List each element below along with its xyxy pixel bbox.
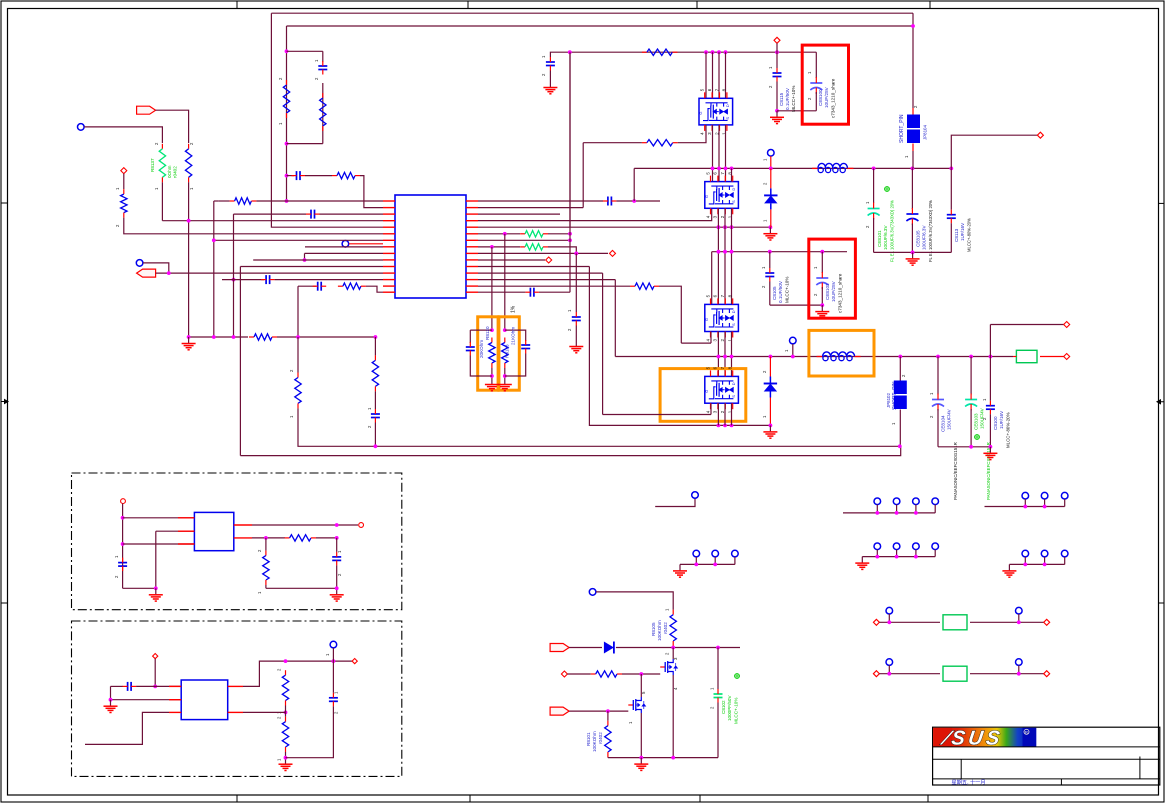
testpoint row1 mid junction 2 (895, 511, 899, 515)
wire cap to gnd top (549, 71, 551, 82)
wire JP8104 pin1 to SW1 (912, 151, 914, 168)
pin1 label RC cap (314, 59, 319, 62)
IC U8100 right pins (466, 201, 478, 292)
label C8113 (954, 228, 959, 242)
svg-text:G: G (704, 195, 709, 198)
resistor on rail52 (642, 49, 678, 55)
svg-text:MLCC+-10%: MLCC+-10% (734, 698, 739, 724)
wire box1 fb down (265, 538, 267, 551)
pin1 box1 res (257, 591, 262, 594)
power diamond row260 (546, 257, 552, 263)
junction row253 x576 (574, 252, 578, 256)
wire row R266 (478, 266, 589, 268)
testpoint row1 mid circle 1 (874, 498, 881, 505)
fuse row B stub left (888, 665, 890, 673)
label CE8105 value (922, 225, 927, 250)
wire D2 top (769, 357, 771, 377)
pin2 D2 (762, 370, 767, 373)
junction SW2 JP8102 (898, 355, 902, 359)
pin5 Q2 (641, 691, 646, 694)
junction rail227 bus3 (717, 225, 721, 229)
wire bus line1 top (705, 52, 707, 98)
svg-text:r0402: r0402 (598, 732, 603, 744)
junction rail227 bus2 (723, 225, 727, 229)
capacitor CE8100 10UF/25V (810, 77, 822, 94)
wire row201 cap to end (616, 200, 660, 202)
wire caps bottom rail (874, 251, 952, 253)
ground box2 bottom (279, 758, 293, 771)
wire vertical x286 left (286, 26, 288, 201)
power diamond C8115 (774, 37, 780, 43)
svg-text:D: D (731, 382, 736, 385)
highlight box orange around Q8104 (660, 369, 746, 422)
pin1 C8115 (768, 66, 773, 69)
junction bm row2 (639, 672, 643, 676)
resistor bm row2 (591, 671, 622, 677)
capacitor C8115 0.1UF/50V (773, 68, 782, 82)
wire D1 top (770, 168, 772, 188)
wire IC row L253 (305, 252, 384, 254)
ASUS logo (933, 728, 1036, 750)
power diamond box2 out (352, 659, 357, 664)
wire R8137 down (161, 182, 163, 220)
wire CE8105 bottom (911, 224, 913, 253)
fuse row A circle left (886, 607, 893, 614)
label CE8103 value (980, 407, 985, 429)
svg-text:0Ohm: 0Ohm (167, 165, 172, 178)
testpoint row2 mid stub 3 (915, 550, 917, 557)
wire v213 from row201 (214, 200, 219, 202)
capacitor on row175 (292, 171, 306, 180)
junction box1 out top (335, 523, 339, 527)
pin1 res188 (189, 187, 194, 190)
label 1 percent (511, 305, 517, 313)
junction rail425 bus4 (723, 424, 727, 428)
svg-text:R8133: R8133 (505, 344, 510, 358)
label 0.1UF/50V (785, 87, 790, 110)
wire bus line4 mid1 (725, 125, 727, 182)
testpoint row2 left stub 1 (695, 557, 697, 565)
fuse row B diamond left (873, 671, 879, 677)
wire v240 down long (239, 267, 241, 456)
pin2 cap rail (541, 73, 546, 76)
svg-text:S: S (725, 117, 730, 120)
wire row R201 to cap (478, 200, 603, 202)
junction R8120 bottom (490, 374, 494, 378)
wire JP8102 pin2 (899, 357, 901, 381)
label C8102 (721, 700, 726, 714)
testpoint row2 mid circle4 (932, 543, 939, 550)
capacitor v375 (371, 409, 380, 423)
fuse row B circle left (886, 659, 893, 666)
capacitor left of R8120 (466, 342, 475, 356)
resistor on row175 (332, 172, 360, 178)
resistor on branch x322 (320, 93, 326, 131)
label FL EL (890, 200, 895, 262)
wire R8105 to row (672, 646, 674, 648)
pin2 res v298 (289, 369, 294, 372)
wire box1 res to cap (316, 537, 337, 539)
fuse row A wire left (879, 621, 940, 623)
testpoint row2 left ground (673, 564, 687, 577)
junction row247 x491 (490, 245, 494, 249)
wire RC branch top (287, 50, 323, 52)
fuse row A diamond left (873, 619, 879, 625)
capacitor right of R8133 (521, 340, 530, 354)
svg-text:1000PF/50V: 1000PF/50V (727, 695, 732, 721)
fuse row A junction right (1017, 620, 1021, 624)
ground box1 left (149, 588, 163, 601)
testpoint row2 left junction 1 (694, 563, 698, 567)
wire C8105 top (769, 252, 771, 268)
svg-text:D: D (731, 310, 736, 313)
fuse row A diamond right (1044, 619, 1050, 625)
ground C8115 (770, 111, 784, 124)
junction box2 bottom (284, 756, 288, 760)
junction SW2 CE8103 (969, 355, 973, 359)
pin4 Q1 (673, 687, 678, 690)
testpoint row2 left stub3 (734, 557, 736, 565)
testpoint row2 right ground (1002, 564, 1016, 577)
wire net VIN top A (271, 12, 913, 14)
testpoint row2 right circle 1 (1022, 550, 1029, 557)
junction gate row x286 (285, 174, 289, 178)
power diamond VOUT1 (1037, 132, 1043, 138)
label CE8101 (877, 230, 882, 247)
junction R8133 bottom (503, 374, 507, 378)
wire bus line2 rail2 corner (711, 252, 713, 305)
pin1 CE8100 (807, 71, 812, 74)
junction row240 x570 (568, 238, 572, 242)
label c7343 1210 share (831, 78, 836, 118)
pin1 box2 circle (325, 653, 330, 656)
wire row R292 to cap (478, 291, 525, 293)
zone ticks left with arrow (1, 202, 8, 204)
pin1 label res x286 (278, 122, 283, 125)
pin1 box2 resL (277, 758, 282, 761)
ground box2 left (104, 700, 118, 713)
resistor vertical x123 (121, 189, 127, 218)
wire row R227 rail to D1 (478, 226, 770, 228)
junction SW1 bus x719 (717, 167, 721, 171)
svg-text:SHORT_PIN: SHORT_PIN (899, 114, 905, 143)
svg-text:1UF/16V: 1UF/16V (999, 410, 1004, 429)
junction rail251 bus1 (730, 250, 734, 254)
junction SW1 x951 (949, 167, 953, 171)
wire v576 from row253 (575, 253, 577, 312)
svg-text:JP8102: JP8102 (886, 393, 891, 408)
ground D2 (763, 425, 777, 438)
zone ticks top (236, 1, 238, 9)
wire bm row2 right (622, 673, 660, 675)
capacitor top left of rail (546, 57, 555, 71)
wire IC row L214 left (234, 213, 307, 215)
fuse row A junction left (887, 620, 891, 624)
pin1 CE8104 (929, 392, 934, 395)
wire row247 to corner576 (548, 247, 576, 254)
inductor L SW2 (817, 352, 861, 361)
junction row233 x570 (568, 232, 572, 236)
wire gate M4 (603, 414, 711, 416)
wire v298 rail to res (297, 337, 299, 373)
wire Q1 source (672, 675, 674, 758)
svg-text:1%: 1% (511, 305, 517, 313)
pin1 box1 cap (114, 555, 119, 558)
pin2 res188 (189, 142, 194, 145)
regulator IC U box2 (181, 680, 228, 720)
green marker C8102 (735, 674, 740, 679)
testpoint row1 right stub 2 (1044, 499, 1046, 507)
junction box2 res top (284, 659, 288, 663)
capacitor box1 left (118, 558, 127, 572)
testpoint row1 mid stub 3 (915, 505, 917, 513)
wire row R240 (478, 239, 570, 241)
capacitor box2 input (123, 682, 137, 691)
junction box2 fb (284, 711, 288, 715)
wire v570 top rail to row227 (569, 52, 571, 227)
pin2 JP8104 (913, 105, 918, 108)
svg-text:MLCC+-80%-20%: MLCC+-80%-20% (967, 218, 972, 252)
testpoint circle B (78, 124, 85, 131)
junction SW1 bus x712.5 (711, 167, 715, 171)
svg-text:10UF/25V: 10UF/25V (831, 280, 836, 302)
highlight box orange R8120 (478, 317, 498, 390)
pin2 res x123 (115, 224, 120, 227)
pin2 D1 (763, 182, 768, 185)
svg-text:r0402: r0402 (173, 166, 178, 178)
wire CE8102 bottom (821, 287, 823, 305)
wire gate M3 stub (710, 332, 712, 344)
svg-text:CE8105: CE8105 (916, 230, 921, 247)
capacitor box1 right (332, 552, 341, 566)
label C8105 (772, 286, 777, 300)
label C8100 desc (1006, 412, 1011, 448)
wire row R214 (478, 213, 560, 215)
svg-text:JP8104: JP8104 (923, 125, 928, 140)
testpoint row2 right junction 1 (1023, 563, 1027, 567)
ground left rail (182, 337, 196, 350)
svg-text:G: G (704, 390, 709, 393)
junction rail 298 (296, 335, 300, 339)
capacitor row201 right (603, 197, 617, 206)
ground caps SW2 (983, 447, 997, 460)
label C8100 (993, 416, 998, 430)
testpoint row2 mid stub 2 (896, 550, 898, 557)
wire SW2 rail (615, 356, 1013, 358)
fuse row B junction left (887, 672, 891, 676)
testpoint row1 mid circle 2 (893, 498, 900, 505)
junction rail 375 (374, 335, 378, 339)
wire R8101 bottom (607, 756, 609, 759)
resistor box1 fb (285, 535, 316, 541)
wire box1 row2 (156, 530, 195, 532)
resistor v298 (295, 373, 301, 409)
junction caps bottom (911, 251, 915, 255)
junction RC top (285, 49, 289, 53)
pin2 C8102 (710, 706, 715, 709)
resistor on main x286 (283, 80, 289, 118)
testpoint row2 left circle 2 (712, 550, 719, 557)
wire bus line2 (712, 52, 714, 98)
wire box2 cap row left (111, 685, 124, 687)
junction rail52 bus x725.5 (724, 50, 728, 54)
highlight box red CE8102 (809, 239, 856, 318)
wire CE8100 bottom (815, 92, 817, 111)
pin2 box2 resL (277, 716, 282, 719)
svg-text:PANASONIC/EEFCX0G151R: PANASONIC/EEFCX0G151R (953, 442, 958, 500)
wire circle C stub (143, 263, 169, 273)
wire v375 res to cap (374, 391, 376, 409)
power diamond VOUT2 (1064, 354, 1070, 360)
wire v298 corner long upper (298, 408, 900, 446)
connector input A (137, 106, 156, 114)
pin2 R8137 (154, 142, 159, 145)
ground caps SW1 (906, 252, 920, 265)
svg-text:G: G (704, 318, 709, 321)
capacitor CE8102 10UF/25V (816, 272, 828, 289)
power diamond x123 (121, 168, 127, 174)
svg-text:S: S (731, 200, 736, 203)
pin2 CE8100 (807, 97, 812, 100)
label 21KOhm (511, 327, 516, 345)
svg-text:CE8102: CE8102 (825, 283, 830, 300)
wire box2 circle stub (332, 648, 334, 661)
wire C8115 bottom (776, 82, 778, 111)
label R8120 (485, 326, 490, 340)
svg-text:1UF/16V: 1UF/16V (960, 222, 965, 241)
pin2 CE8104 (929, 415, 934, 418)
wire row R221 gate Q8102 (478, 208, 712, 220)
junction SW2 bus x718.4 (717, 355, 721, 359)
svg-text:100UF/6.3V: 100UF/6.3V (922, 225, 927, 250)
resistor R8120 20KOhm (489, 338, 495, 369)
pin1 cap v576 (567, 309, 572, 312)
resistor box2 lower (282, 717, 288, 752)
capacitor row292 (525, 288, 539, 297)
wire bm row3 (569, 710, 628, 712)
label R8101 (586, 732, 591, 746)
testpoint circle row244 (342, 241, 349, 248)
wire box1 mid vert (155, 531, 157, 588)
wire ground rail right (277, 336, 375, 338)
wire bus line3 mid4 (717, 403, 719, 425)
junction rail251 C8105 (768, 250, 772, 254)
pin2 label res x286 (278, 77, 283, 80)
testpoint row1 mid stub 1 (876, 505, 878, 513)
wire bus line5 mid4 (731, 403, 733, 425)
wire CE8105 top (911, 168, 913, 209)
svg-text:MLCC+-80%-20%: MLCC+-80%-20% (1006, 412, 1011, 448)
junction rail425 bus3 (717, 424, 721, 428)
wire gate M4 stub (710, 403, 712, 414)
pin2 C8105 (761, 285, 766, 288)
wire x188 down to rail (188, 182, 190, 337)
wire from connector A (156, 110, 189, 143)
wire row214 to IC (320, 213, 384, 215)
wire JP8104 pin1 stub (912, 144, 914, 152)
wire box2 out top (243, 661, 352, 686)
testpoint row2 left junction 2 (713, 563, 717, 567)
wire row R253 (478, 252, 608, 254)
wire v504 corner from row233 (504, 234, 506, 330)
svg-text:10UF/25V: 10UF/25V (824, 86, 829, 108)
wire gate M1 to pin (678, 125, 706, 143)
junction SW1 bus x725.5 (724, 167, 728, 171)
transistor Q2 nmos (628, 697, 645, 713)
wire ground rail left (189, 336, 248, 338)
testpoint row2 mid junction 1 (875, 555, 879, 559)
wire box1 gnd rail (266, 587, 337, 589)
junction rail52 C8115 (775, 50, 779, 54)
wire row201 to IC (256, 200, 383, 202)
mosfet package Q8102 SO8 (704, 172, 739, 219)
junction box1 gnd left (154, 586, 158, 590)
wire RC branch right upper (322, 51, 324, 62)
wire box2 lower left (85, 712, 169, 744)
pin2 box2 resU (277, 668, 282, 671)
fuse row A circle right (1016, 607, 1023, 614)
label C8105 desc (785, 277, 790, 303)
connector bm2 (550, 707, 569, 715)
fuse row A wire right (970, 621, 1044, 623)
label 20KOhm (479, 340, 484, 358)
capacitor C8100 1UF/16V (986, 401, 995, 415)
wire from circle B (84, 127, 162, 143)
capacitor row279 (261, 275, 275, 284)
ground R8133 (498, 378, 512, 391)
label CE8105 (916, 230, 921, 247)
resistor box1 lower (263, 551, 269, 585)
pin2 CE8102 (813, 293, 818, 296)
label CE8103 desc (986, 442, 991, 500)
svg-text:r0402: r0402 (663, 622, 668, 634)
fuse row B stub right (1018, 665, 1020, 673)
wire box1 out top (252, 524, 358, 526)
wire row292 corner up (539, 291, 570, 293)
wire box2 cap row right (136, 685, 181, 687)
junction SW1 x874 (872, 167, 876, 171)
wire Q1 drain (672, 648, 674, 660)
testpoint row2 right stub 1 (1024, 557, 1026, 565)
junction cap row279 (232, 278, 236, 282)
junction CE8102 bottom (820, 303, 824, 307)
highlight box orange inductor L2 (809, 330, 874, 376)
testpoint row2 mid circle 3 (913, 543, 920, 550)
wire CE8103 bottom (970, 409, 972, 447)
power diamond box2 (153, 654, 158, 659)
label R8105 value (657, 620, 662, 641)
wire box2 res mid (285, 706, 287, 717)
junction JP8102 bottom (898, 444, 902, 448)
wire row279 to IC (275, 279, 383, 281)
testpoint row1 right stub 1 (1024, 499, 1026, 507)
wire SW1 rail (634, 167, 951, 169)
wire bus line3 mid2 (717, 208, 719, 304)
power ring terminal box1 (121, 499, 126, 504)
testpoint row1 mid junction 3 (914, 511, 918, 515)
wire IC row L240 (214, 239, 383, 241)
junction box1 rail right (335, 586, 339, 590)
junction rail251 CE8102 (820, 250, 824, 254)
wire box2 fb row (243, 711, 286, 713)
wire box2 diamond down (154, 659, 156, 687)
wire bm row1 mid (616, 647, 740, 649)
capacitor CE8105 100UF/6.3V (906, 208, 918, 225)
pin2 CE8101 (865, 225, 870, 228)
testpoint circle C (136, 260, 143, 267)
junction box1 fb (264, 536, 268, 540)
svg-text:CE8100: CE8100 (818, 89, 823, 106)
